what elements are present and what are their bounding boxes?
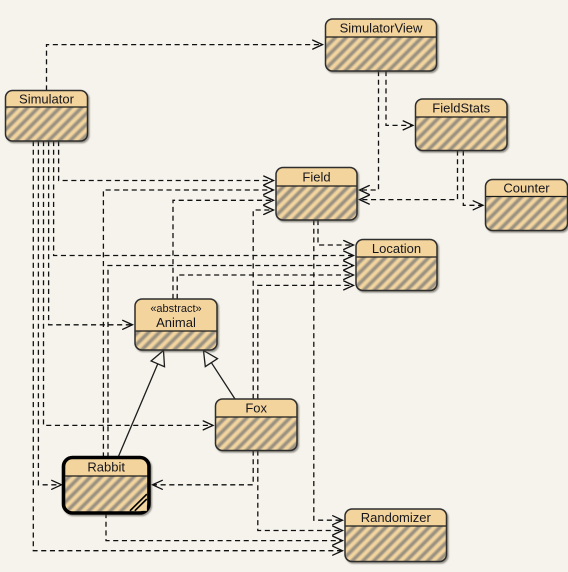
dependency Rabbit->Location	[108, 266, 353, 458]
dependency Fox->Location	[258, 285, 353, 399]
svg-text:Counter: Counter	[503, 181, 550, 196]
svg-text:Field: Field	[302, 169, 330, 184]
inheritance Rabbit->Animal	[118, 364, 158, 458]
dependency Fox->Randomizer	[258, 451, 342, 531]
class Rabbit	[64, 458, 150, 514]
dependency Fox->Field	[253, 210, 272, 399]
svg-text:Randomizer: Randomizer	[361, 510, 432, 525]
svg-text:«abstract»: «abstract»	[150, 303, 201, 315]
dependency FieldStats->Field	[361, 151, 458, 200]
svg-text:Fox: Fox	[245, 401, 267, 416]
class Fox	[216, 399, 298, 451]
class Randomizer	[345, 509, 447, 562]
dependency Field->Location	[318, 220, 353, 245]
class Location	[356, 240, 437, 291]
dependency FieldStats->Counter	[463, 151, 482, 206]
class Counter	[486, 180, 568, 231]
dependency SimulatorView->Field	[361, 71, 379, 190]
dependency Field->Randomizer	[314, 220, 342, 520]
class Simulator	[6, 91, 88, 142]
dependency Rabbit->Randomizer	[106, 513, 342, 541]
dependency Simulator->Randomizer	[33, 141, 341, 551]
dependency Simulator->Animal	[49, 141, 132, 325]
svg-text:Animal: Animal	[156, 315, 196, 330]
dependency Simulator->Field	[59, 141, 273, 181]
svg-text:Rabbit: Rabbit	[87, 459, 125, 474]
svg-text:FieldStats: FieldStats	[432, 101, 490, 116]
dependency Rabbit->Field	[103, 190, 272, 458]
dependency Animal->Location	[177, 275, 352, 299]
dependency SimulatorView->FieldStats	[386, 71, 412, 125]
class SimulatorView	[326, 19, 437, 71]
class FieldStats	[416, 99, 508, 151]
class Field	[276, 168, 357, 221]
dependency Animal->Field	[173, 200, 273, 299]
class Animal	[135, 299, 217, 350]
dependency Simulator->Fox	[44, 141, 213, 425]
Rabbit resize handle	[130, 494, 147, 511]
dependency Simulator->Location	[54, 141, 353, 256]
svg-text:Location: Location	[372, 241, 421, 256]
inheritance Fox->Animal	[211, 363, 235, 399]
dependency Simulator->Rabbit	[38, 141, 60, 485]
dependency Simulator->SimulatorView	[47, 45, 322, 91]
dependency Fox->Rabbit	[154, 451, 254, 485]
svg-text:Simulator: Simulator	[19, 91, 75, 106]
svg-text:SimulatorView: SimulatorView	[340, 21, 423, 36]
